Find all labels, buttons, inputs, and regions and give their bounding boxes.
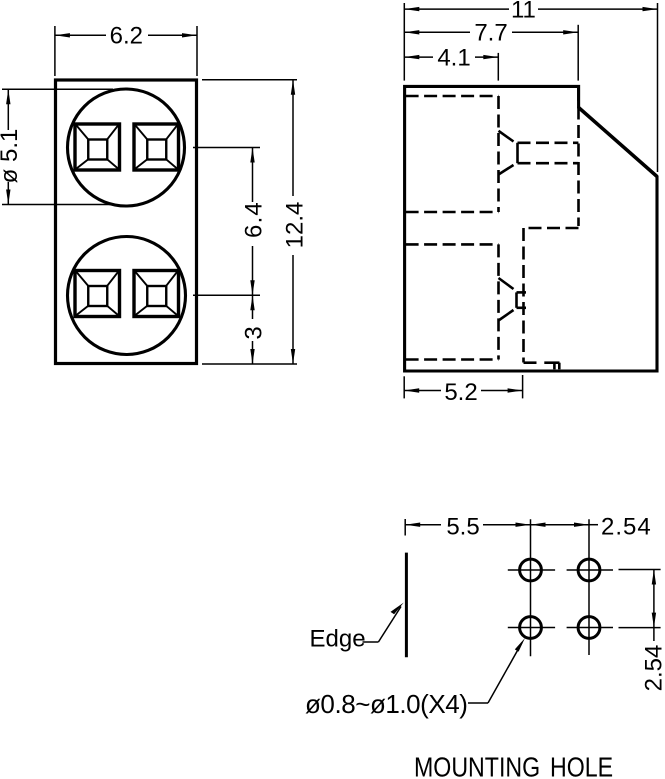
side view lead frame plane dashed [524, 88, 579, 363]
extension line bottom squares center [193, 294, 260, 296]
dimension 3 arrows [250, 295, 254, 310]
side view outline [405, 86, 657, 371]
dimension 5.2 arrows [404, 388, 419, 392]
dimension 12.4 arrows [291, 80, 295, 95]
front view outline [56, 80, 197, 364]
bottom-right chip outer square [134, 271, 179, 317]
bottom-right chip inner square [147, 286, 166, 306]
svg-text:5.2: 5.2 [444, 379, 477, 406]
dimension 2.54 vertical arrows [652, 570, 656, 585]
svg-text:5.5: 5.5 [446, 514, 479, 541]
dimension 7.7 line [404, 31, 578, 33]
side view bottom reflector cup [499, 278, 517, 321]
side view bottom cup mouth dashed [517, 292, 527, 307]
dimension dia 5.1 line [7, 89, 9, 204]
side view bottom cavity dashed [406, 244, 499, 359]
svg-text:6.4: 6.4 [241, 201, 268, 238]
top-left chip outer square [75, 124, 120, 170]
extension line front bottom right [202, 363, 297, 365]
dimension 6.2 extension lines [55, 26, 197, 76]
dimension 6.2 line [55, 34, 197, 36]
top-right chip outer square [134, 124, 179, 170]
side view bottom lead tab [544, 363, 559, 370]
extension line top squares center [193, 147, 260, 149]
dimension 11 line [404, 8, 657, 10]
svg-text:2.54: 2.54 [601, 514, 652, 541]
svg-text:7.7: 7.7 [474, 20, 507, 47]
top lens circle [68, 89, 185, 206]
dimension 11 extension lines [404, 3, 657, 172]
top-left chip inner square [88, 140, 107, 160]
bottom-left chip bevel diagonals [77, 272, 119, 315]
svg-text:11: 11 [511, 0, 536, 24]
dimension 7.7 extension line [577, 25, 579, 81]
hole column centerline left [530, 519, 532, 656]
svg-text:MOUNTING HOLE: MOUNTING HOLE [414, 753, 613, 779]
dimension 6.4 line [252, 148, 254, 296]
svg-text:2.54: 2.54 [641, 645, 665, 692]
mounting hole top-right [578, 559, 600, 581]
edge leader arrow [391, 603, 404, 615]
bottom lens circle [68, 237, 186, 355]
pcb edge line [405, 553, 408, 658]
bottom-left chip outer square [75, 271, 120, 317]
dimension dia 5.1 tangent lines [2, 89, 113, 204]
bottom-left chip inner square [88, 286, 107, 306]
hole leader line [468, 643, 522, 704]
hole row centerline top [508, 569, 613, 571]
side view top cup mouth dashed [518, 143, 579, 163]
mounting hole top-left [520, 559, 542, 581]
svg-text:12.4: 12.4 [282, 202, 309, 249]
svg-text:ø0.8~ø1.0(X4): ø0.8~ø1.0(X4) [305, 689, 468, 719]
svg-text:6.2: 6.2 [110, 23, 143, 50]
dimension 6.4 arrows [250, 148, 254, 163]
dimension 5.5 arrows [405, 523, 420, 527]
dimension 2.54 horizontal arrows [531, 523, 546, 527]
dimension 7.7 arrows [404, 30, 419, 34]
dimension 4.1 arrows [404, 55, 419, 59]
dimension 2.54 horizontal line [531, 524, 599, 526]
top-left chip bevel diagonals [77, 126, 119, 169]
mounting view 5.5 dimension line [405, 524, 530, 526]
hole column centerline right [588, 519, 590, 655]
dimension 4.1 line [404, 56, 498, 58]
top-right chip bevel diagonals [136, 126, 178, 169]
dimension 4.1 extension line [497, 53, 499, 81]
hole leader arrow [515, 638, 525, 652]
svg-text:ø 5.1: ø 5.1 [0, 129, 23, 184]
extension line front top right [202, 79, 297, 81]
mounting view 5.5 extension line [404, 519, 406, 536]
dimension 12.4 line [292, 80, 294, 364]
side view bevel emphasis [579, 108, 657, 177]
dimension 3 line [252, 295, 254, 364]
edge leader line [363, 607, 402, 643]
dimension 2.54 vertical extension lines [619, 570, 661, 628]
svg-text:3: 3 [241, 326, 268, 339]
bottom-right chip bevel diagonals [136, 272, 178, 315]
dimension dia 5.1 arrows [6, 89, 10, 104]
dimension 5.2 line [404, 390, 522, 392]
mounting hole bottom-left [520, 617, 542, 639]
dimension 5.2 extension lines [404, 375, 522, 398]
dimension 11 arrows [404, 7, 419, 11]
svg-text:4.1: 4.1 [437, 45, 470, 72]
top-right chip inner square [147, 140, 166, 160]
side view top cavity dashed [406, 96, 499, 212]
mounting hole bottom-right [578, 617, 600, 639]
dimension 6.2 arrows [55, 33, 70, 37]
hole row centerline bottom [508, 627, 613, 629]
dimension 2.54 vertical line [653, 570, 655, 642]
side view top reflector cup [499, 131, 518, 175]
svg-text:Edge: Edge [310, 626, 366, 653]
